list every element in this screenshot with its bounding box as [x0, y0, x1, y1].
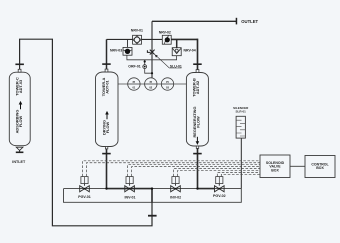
- svg-text:INV-02: INV-02: [170, 195, 181, 199]
- svg-text:PGV-02: PGV-02: [213, 194, 226, 198]
- svg-text:FLOW: FLOW: [105, 121, 110, 133]
- svg-text:SLU-01: SLU-01: [170, 64, 182, 68]
- svg-text:ADT-03: ADT-03: [18, 79, 23, 93]
- svg-text:PI: PI: [150, 80, 153, 84]
- svg-text:SLR-01: SLR-01: [236, 109, 247, 113]
- svg-text:NRV-02: NRV-02: [159, 30, 171, 34]
- svg-text:NRV-03: NRV-03: [110, 49, 122, 53]
- svg-text:INTLET: INTLET: [12, 160, 26, 164]
- svg-text:BOX: BOX: [316, 166, 324, 170]
- svg-text:ORF-01: ORF-01: [128, 65, 141, 69]
- svg-text:PI: PI: [166, 80, 169, 84]
- svg-text:NRV-01: NRV-01: [131, 28, 143, 32]
- svg-text:FLOW: FLOW: [18, 115, 23, 127]
- svg-text:ADT-02: ADT-02: [195, 80, 200, 94]
- svg-text:PI: PI: [133, 80, 136, 84]
- svg-text:FLOW: FLOW: [195, 116, 200, 128]
- svg-text:NRV-04: NRV-04: [184, 48, 196, 52]
- svg-text:BOX: BOX: [271, 168, 279, 172]
- svg-text:PGV-01: PGV-01: [78, 195, 91, 199]
- svg-text:OUTLET: OUTLET: [241, 19, 258, 24]
- svg-text:ADT-01: ADT-01: [105, 79, 110, 93]
- svg-text:INV-01: INV-01: [125, 195, 136, 199]
